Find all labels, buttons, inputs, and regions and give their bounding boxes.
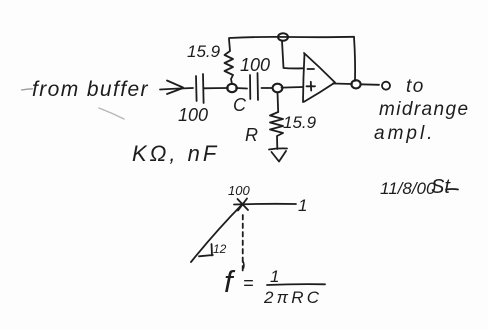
bode plot: corner label 100 [228, 183, 250, 198]
svg-text:ampl.: ampl. [374, 123, 435, 144]
node D junction [273, 84, 283, 93]
wire node E to output terminal [361, 83, 380, 86]
bode plot rolloff slope line [191, 204, 243, 263]
svg-text:12: 12 [213, 242, 227, 256]
top feedback rail wire [229, 37, 354, 38]
svg-text:15.9: 15.9 [187, 42, 221, 61]
wire input from buffer [160, 88, 193, 90]
wire C2 to node D [262, 87, 273, 89]
svg-text:100: 100 [240, 55, 270, 75]
svg-text:15.9: 15.9 [283, 113, 317, 132]
svg-text:100: 100 [178, 105, 208, 125]
label: to midrange ampl. [374, 76, 469, 144]
svg-text:KΩ, nF: KΩ, nF [132, 141, 219, 166]
value label 100 (C1) [178, 105, 208, 125]
faint pencil smudge [99, 108, 124, 119]
value label 15.9 (R2) [283, 113, 317, 132]
resistor R1 (vertical, to top rail) [225, 39, 234, 84]
svg-text:St: St [431, 176, 451, 198]
formula f prime tick [242, 262, 245, 269]
svg-text:midrange: midrange [379, 99, 469, 120]
slope indicator triangle [199, 244, 213, 256]
label R [245, 125, 258, 145]
value label 15.9 (R1) [187, 42, 221, 61]
label C [233, 95, 247, 115]
wire node D down to resistor R2 [277, 93, 280, 113]
capacitor C1 [196, 74, 204, 103]
wire node A to capacitor C2 [236, 87, 247, 90]
node A junction [227, 84, 237, 92]
output terminal circle [382, 82, 390, 90]
value label 100 (C2) [240, 55, 270, 75]
svg-text:1: 1 [270, 267, 279, 286]
bode plot passband line [234, 203, 296, 206]
wire op-amp output to node E [333, 83, 352, 86]
wire feedback right vertical [354, 37, 355, 81]
slope label 12 [213, 242, 227, 256]
resistor R2 (vertical, to ground) [270, 112, 283, 149]
svg-text:2πRC: 2πRC [263, 288, 322, 307]
arrow into capacitor C1 [167, 81, 183, 95]
op-amp U1 [303, 53, 335, 102]
capacitor C2 [250, 73, 258, 100]
svg-text:=: = [243, 273, 254, 293]
node E output junction [351, 80, 360, 88]
bode plot label 1 [298, 196, 307, 215]
svg-text:C: C [233, 95, 247, 115]
svg-text:11/8/00: 11/8/00 [380, 179, 436, 198]
svg-text:R: R [245, 125, 258, 145]
wire node D to op-amp non-inverting input [282, 86, 304, 89]
ground symbol [269, 148, 287, 161]
date annotation 11/8/00 St [380, 176, 451, 198]
formula f = 1/(2 pi R C) [224, 264, 322, 307]
formula fraction bar [267, 283, 325, 286]
svg-text:f: f [224, 264, 236, 299]
svg-text:to: to [406, 76, 425, 97]
label: KΩ, nF units [132, 141, 219, 166]
bode plot corner x mark [238, 199, 249, 211]
wire node B down to op-amp inverting input [282, 41, 303, 68]
node B junction on top rail [278, 33, 288, 41]
wire C1 to node A [204, 87, 228, 89]
svg-text:100: 100 [228, 183, 250, 198]
svg-text:1: 1 [298, 196, 307, 215]
label: from buffer [32, 78, 149, 101]
dashed line from corner frequency [242, 215, 244, 271]
pencil lead-in stroke before from [22, 89, 33, 90]
svg-text:from buffer: from buffer [32, 78, 149, 101]
